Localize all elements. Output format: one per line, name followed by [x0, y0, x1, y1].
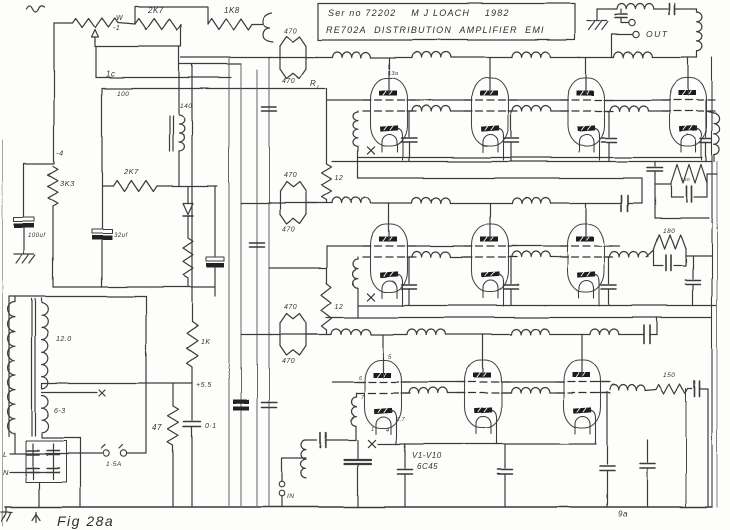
anode bus row2 a: [306, 202, 332, 204]
wire 100/RL line: [102, 88, 325, 90]
svg-text:470: 470: [282, 78, 295, 85]
resistor below diode: [183, 238, 193, 278]
wire 2K7b right: [157, 185, 217, 187]
grid wire V9-V10: [501, 381, 564, 383]
filter caps left: [32, 444, 34, 479]
wire term3 down: [707, 389, 709, 507]
cathode bus row1: [358, 157, 702, 159]
wire IN up: [281, 458, 283, 482]
wire OUT top a: [597, 8, 617, 10]
resistor 2K7 (top): [135, 19, 181, 30]
capacitor row2 right: [692, 256, 694, 279]
svg-text:12: 12: [335, 304, 344, 311]
wire 1K rail: [191, 64, 193, 322]
wire 1K down: [191, 367, 193, 420]
svg-text:RE702A DISTRIBUTION AMPLIFIE: RE702A DISTRIBUTION AMPLIFIER EMI: [326, 25, 545, 35]
wire gammaC line: [96, 77, 231, 79]
svg-text:0·1: 0·1: [205, 423, 217, 430]
wire 47 down: [172, 445, 174, 507]
capacitor C-bias wire: [214, 186, 216, 256]
resistor pair 470/470 row2: [269, 202, 317, 204]
capacitor Ck1 row3: [404, 444, 406, 468]
wire 140 down: [178, 151, 180, 186]
anode lead V2: [489, 58, 491, 91]
resistor 1K8: [208, 19, 252, 30]
resistor pair 470/470 row1: [269, 57, 317, 59]
svg-text:-4: -4: [56, 149, 64, 158]
bottom dashed return line: [25, 518, 729, 520]
svg-text:6C45: 6C45: [417, 462, 438, 471]
wire -4 branch: [24, 163, 54, 165]
resistor 1K: [187, 322, 198, 367]
wire 32uf drop: [101, 89, 103, 229]
resistor 3K3: [48, 166, 58, 206]
inductor Lg2 row3: [501, 392, 511, 394]
wire C-bias down: [214, 268, 216, 296]
tube V5: [363, 224, 416, 306]
capacitor term3: [688, 388, 692, 390]
wire term2 out: [686, 255, 712, 257]
anode bus row1 pair gap: [306, 57, 332, 59]
inductor L11 anode bus3: [590, 329, 619, 335]
grid wire V10 right: [598, 381, 610, 383]
inductor OUT right: [696, 9, 698, 12]
svg-text:1K: 1K: [201, 339, 211, 346]
node X row2: [367, 293, 374, 300]
screen symbol: [35, 512, 37, 522]
wire bus1 d: [551, 57, 615, 59]
svg-text:6: 6: [359, 376, 363, 382]
capacitor 100uf: [14, 217, 34, 221]
grid wire V8 left: [332, 381, 365, 383]
resistor 2K7b: [113, 181, 157, 192]
tube V4: [662, 78, 715, 160]
inductor L7 anode bus2: [512, 198, 550, 204]
capacitor C-g1 row2: [408, 257, 410, 284]
wire HT+ line: [41, 383, 43, 388]
svg-text:R: R: [310, 79, 316, 88]
rail D x269: [268, 58, 270, 508]
svg-text:150: 150: [663, 372, 675, 379]
ground below 100uf: [14, 253, 34, 255]
pencil mark top-left: [27, 6, 45, 12]
coupling line row1-2: [358, 177, 642, 179]
wire bus1 c: [451, 57, 513, 59]
capacitor C-g3 row1: [608, 111, 610, 137]
capacitor OUT series: [669, 4, 671, 15]
capacitor C-g2 row1: [510, 111, 512, 137]
wire bus3 b: [371, 334, 407, 336]
wire 12b top: [326, 246, 328, 283]
anode lead V7: [585, 203, 587, 236]
jack connector J1: [263, 13, 273, 42]
wire heater return: [41, 434, 43, 438]
svg-text:1K8: 1K8: [224, 6, 240, 15]
cathode drop V10: [595, 442, 597, 444]
capacitor coupling row2: [621, 195, 623, 211]
svg-text:OUT: OUT: [646, 29, 668, 39]
wire x686 drop: [685, 389, 687, 507]
capacitor C-g4 row1: [705, 100, 707, 137]
svg-text:140: 140: [180, 103, 192, 110]
capacitor C-bias electrolytic: [206, 257, 224, 261]
transformer primary: [8, 302, 15, 433]
wire bus3 c: [446, 334, 512, 336]
capacitor OUT tap: [620, 9, 622, 13]
svg-text:7: 7: [361, 395, 365, 401]
resistor 150: [656, 384, 688, 394]
filter ground lead: [38, 482, 40, 507]
tube V1: [363, 78, 416, 160]
wire 1K8 to jack: [252, 24, 263, 26]
svg-text:9a: 9a: [618, 510, 628, 519]
tube V8: [357, 360, 410, 442]
wire IN 2 down: [281, 496, 283, 507]
capacitor C-g3 row2: [608, 257, 610, 284]
svg-text:180: 180: [681, 177, 690, 182]
wire RL corner down: [326, 89, 328, 165]
cathode bus row2: [358, 305, 716, 307]
svg-text:-1: -1: [113, 25, 120, 32]
svg-text:32uf: 32uf: [114, 233, 129, 239]
tube V9: [457, 360, 510, 442]
capacitor Ck2 row3: [504, 444, 506, 468]
right vertical bus: [711, 58, 713, 508]
svg-text:470: 470: [282, 358, 295, 365]
capacitor coupling row3: [643, 326, 645, 344]
right vertical bus 2: [716, 162, 718, 508]
svg-text:1c: 1c: [106, 70, 115, 79]
wire bus3 d: [550, 334, 591, 336]
inductor grid-line entry row1: [357, 111, 359, 112]
anode lead V9: [482, 335, 484, 373]
svg-text:Ser no 72202 M J LOACH 1: Ser no 72202 M J LOACH 1982: [328, 8, 510, 18]
svg-text:V1-V10: V1-V10: [412, 451, 442, 460]
cathode drop V9: [496, 442, 498, 444]
wire 32uf down: [101, 240, 103, 287]
svg-text:N: N: [3, 468, 9, 477]
capacitor Ck3 row3: [606, 392, 608, 464]
resistor pair term2: [654, 235, 686, 250]
inductor L2 anode bus: [412, 52, 450, 58]
inductor Lg1 row3: [401, 392, 409, 394]
mains filter box: [26, 441, 66, 482]
wire 0.1 down: [191, 427, 193, 508]
ground bus row1: [332, 161, 712, 163]
tube V3: [560, 78, 613, 160]
wire pot left feed: [54, 22, 73, 24]
terminal IN 2: [279, 491, 285, 497]
inductor L5 anode bus2: [332, 198, 370, 204]
resistor 12b: [322, 283, 332, 330]
filter caps right: [52, 444, 54, 479]
wire 12b to y317: [326, 330, 328, 335]
rail A x229: [228, 59, 230, 508]
grid wire V1 left: [327, 99, 371, 101]
svg-text:13o: 13o: [388, 71, 399, 77]
inductor L4 anode bus: [614, 52, 652, 57]
grid wire V5 left: [327, 245, 371, 247]
wire 2K7 top loop: [135, 7, 208, 25]
wire OUT 2: [612, 34, 633, 36]
svg-text:1: 1: [371, 427, 375, 433]
cathode drop V8: [396, 442, 398, 444]
heater dashdot row2: [377, 297, 626, 299]
inductor Lg1 row2: [407, 256, 412, 258]
capacitor electrolytic rail B: [233, 400, 249, 404]
capacitor C-g2 row2: [510, 257, 512, 284]
capacitor Ck4 row3: [646, 440, 648, 462]
wire gammaC stub: [95, 47, 97, 78]
wire y317 return line: [326, 317, 712, 319]
capacitor IN series: [320, 433, 322, 448]
svg-text:L: L: [317, 85, 321, 91]
inductor grid-line exit row1: [706, 111, 714, 113]
svg-text:2K7: 2K7: [123, 167, 139, 176]
inductor 140 core: [169, 116, 171, 151]
inductor Lg2 row1: [508, 110, 512, 112]
inductor Lg3 row1: [604, 110, 610, 112]
wire 12a to bus2: [326, 200, 328, 203]
diode D1: [187, 186, 189, 203]
svg-text:+5.5: +5.5: [196, 382, 212, 389]
bottom ground bus: [5, 506, 712, 508]
wire diode chain down: [187, 278, 189, 287]
anode lead V5: [388, 203, 390, 236]
wire 100uf top: [23, 164, 25, 217]
svg-text:2K7: 2K7: [147, 6, 164, 15]
anode lead V3: [585, 58, 587, 91]
inductor grid exit row3: [598, 392, 610, 394]
transformer secondary 6.3: [42, 395, 49, 433]
terminal OUT 2: [633, 31, 639, 37]
grid wire V2-V3: [508, 99, 568, 101]
node X row1: [367, 147, 374, 154]
inductor L8 anode bus3: [331, 329, 371, 335]
svg-text:100uf: 100uf: [28, 233, 46, 239]
capacitor on rail C: [250, 242, 265, 244]
wire bus2 b: [371, 202, 413, 204]
wire bottom-left bus: [53, 286, 215, 288]
wire left rail down: [53, 23, 55, 164]
capacitor on rail D lower: [262, 402, 277, 404]
wire 2K7b left: [102, 185, 113, 187]
svg-text:W: W: [116, 15, 124, 22]
svg-text:Fig 28a: Fig 28a: [57, 513, 114, 529]
wire X tap: [42, 391, 97, 393]
svg-text:470: 470: [284, 172, 297, 179]
anode lead V8: [382, 335, 384, 373]
grid wire V8-V9: [401, 381, 465, 383]
svg-text:47: 47: [152, 423, 162, 432]
svg-text:12.0: 12.0: [56, 336, 72, 343]
capacitor on rail D top: [262, 106, 277, 108]
left paper edge: [2, 140, 4, 526]
anode lead V1: [388, 58, 390, 91]
inductor 140: [179, 115, 184, 151]
grid wire V7 right: [604, 245, 620, 247]
svg-text:470: 470: [282, 227, 295, 234]
inductor L10 anode bus3: [511, 329, 549, 335]
resistor pair 470/470 row3: [269, 334, 317, 336]
transformer core: [31, 299, 33, 436]
anode lead V4: [687, 58, 689, 91]
grid wire V5-V6: [407, 245, 472, 247]
svg-text:6-3: 6-3: [54, 408, 66, 415]
svg-text:3K3: 3K3: [60, 179, 75, 188]
ground bottom-left: [1, 511, 12, 513]
inductor L1 anode bus: [332, 52, 370, 58]
wire bus1 b: [371, 57, 413, 59]
wire bus2 d: [551, 202, 622, 204]
inductor Lg1 row1: [407, 110, 412, 112]
inductor grid exit row2: [604, 256, 610, 258]
svg-text:100: 100: [117, 91, 129, 98]
heater dashdot row1: [377, 151, 656, 153]
pot wiper arrow: [92, 30, 99, 43]
svg-text:470: 470: [284, 304, 297, 311]
node X row3: [368, 440, 375, 447]
grid wire V6-V7: [508, 245, 568, 247]
inductor Lg2 row2: [508, 256, 512, 258]
wire bus1 e: [653, 57, 698, 59]
capacitor term1 top: [654, 162, 656, 167]
svg-text:12: 12: [335, 175, 344, 182]
wire mains N: [10, 471, 47, 473]
wire fuse out: [127, 453, 146, 455]
capacitor term1 bottom: [671, 196, 683, 198]
inductor OUT top: [617, 3, 654, 9]
ground OUT: [587, 20, 607, 22]
resistor 12a: [322, 164, 332, 200]
terminal IN 1: [279, 482, 285, 488]
anode lead V6: [489, 203, 491, 236]
transformer secondary 120: [42, 303, 48, 388]
capacitor 32uf: [92, 229, 112, 233]
wire OUT top b: [654, 8, 668, 10]
anode lead V10: [581, 335, 583, 373]
anode bus row3 a: [306, 334, 331, 336]
tube V10: [556, 360, 609, 442]
resistor pair term1: [671, 165, 707, 184]
transformer frame: [9, 297, 146, 437]
terminal OUT 1: [629, 20, 635, 26]
tube V7: [560, 224, 613, 306]
grid wire V3-V4: [604, 99, 670, 101]
inductor L9 anode bus3: [407, 329, 445, 335]
inductor grid entry row3: [355, 393, 357, 397]
anode bus row2 feed: [241, 202, 271, 204]
svg-text:5: 5: [388, 355, 392, 361]
cathode bus row3: [378, 443, 596, 445]
capacitor 0.1: [184, 421, 201, 423]
svg-text:4: 4: [386, 428, 390, 434]
inductor grid-line entry row2: [357, 257, 359, 259]
fuse F1 1.5A: [103, 450, 109, 456]
inductor L3 anode bus: [512, 52, 550, 57]
resistor 47: [168, 406, 179, 445]
rail B x241: [240, 64, 242, 507]
wire 3K3 down: [52, 206, 54, 287]
svg-text:180: 180: [663, 228, 675, 235]
rail C x257: [256, 70, 258, 507]
wire bus3 e: [619, 334, 643, 336]
wire wiper loop: [95, 25, 181, 47]
svg-text:2,7: 2,7: [395, 417, 406, 423]
anode bus row1 seg a: [181, 57, 271, 59]
wire y64 link: [179, 63, 241, 65]
svg-text:IN: IN: [287, 493, 295, 500]
capacitor IN shunt: [357, 440, 359, 458]
wire 100uf down: [23, 228, 25, 253]
inductor L6 anode bus2: [412, 198, 450, 204]
tube V6: [464, 224, 517, 306]
tube V2: [464, 78, 517, 160]
anode bus row3 feed: [241, 334, 271, 336]
title box: [318, 4, 575, 41]
potentiometer VR1: [73, 19, 118, 28]
resistor 47 top wire: [172, 383, 174, 406]
wire x181 vertical: [178, 47, 180, 116]
inductor IN: [301, 457, 306, 459]
svg-text:L: L: [3, 450, 8, 459]
svg-text:1·5A: 1·5A: [106, 461, 122, 468]
capacitor term2 bottom: [654, 265, 663, 267]
wire pot to 2K7: [118, 23, 135, 25]
svg-text:470: 470: [284, 29, 297, 36]
wire mains L: [10, 453, 103, 455]
wire 12b feed: [269, 267, 327, 269]
wire bus2 c: [451, 202, 513, 204]
capacitor C-g1 row1: [408, 111, 410, 137]
grid wire V1-V2: [407, 99, 472, 101]
